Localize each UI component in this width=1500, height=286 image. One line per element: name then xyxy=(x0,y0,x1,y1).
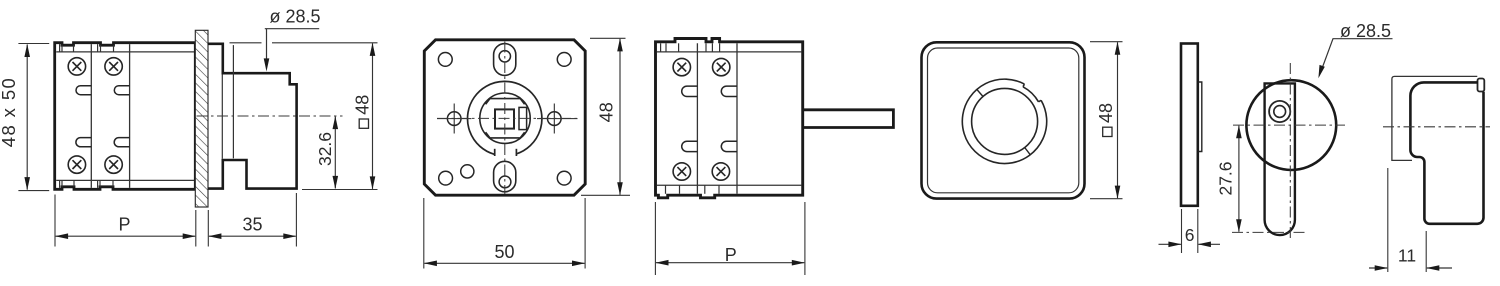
knob handle front xyxy=(1265,83,1295,235)
slot B4 xyxy=(721,141,737,151)
label diameter 28.5 view1 xyxy=(264,7,321,72)
screw A1 xyxy=(68,58,85,75)
slot A3 xyxy=(76,138,91,147)
dimension 6 line outside arrows xyxy=(1159,242,1221,248)
screw B2 xyxy=(713,58,730,75)
plate side ridge xyxy=(1199,82,1202,152)
body section line 2 xyxy=(129,44,131,188)
screw B3 xyxy=(673,163,690,180)
body section line 2 view3 xyxy=(736,43,738,194)
screw B4 xyxy=(712,163,729,180)
escutcheon ring inner circle xyxy=(972,88,1038,154)
svg-text:ø 28.5: ø 28.5 xyxy=(269,7,320,27)
ring tick lower-right xyxy=(1025,148,1031,155)
dimension P view1 line xyxy=(55,233,196,239)
body inner bottom line xyxy=(56,179,194,181)
svg-text:11: 11 xyxy=(1398,246,1416,266)
dimension 35 extensions xyxy=(208,193,296,247)
corner hole TR xyxy=(557,53,571,67)
dimension square48 view4 extensions xyxy=(1090,42,1123,199)
dimension 50 extensions xyxy=(424,198,585,269)
central boss outer ring with bottom notch xyxy=(468,81,542,156)
top oval hole xyxy=(499,51,510,62)
square shaft hole xyxy=(495,109,514,128)
dimension 48x50 line with arrows xyxy=(24,44,30,190)
dimension square48 view1 extension top xyxy=(230,42,378,44)
svg-text:32.6: 32.6 xyxy=(315,132,335,166)
corner hole BR xyxy=(557,171,571,185)
terminal ticks top strip xyxy=(60,44,114,52)
reference line bottom of handle xyxy=(1232,231,1308,233)
svg-text:48: 48 xyxy=(1096,103,1116,123)
dimension 50 line xyxy=(424,261,585,267)
svg-text:P: P xyxy=(725,245,737,265)
dimension 32.6 line xyxy=(333,116,339,189)
dimension square48 view1 line xyxy=(370,43,376,190)
slot A4 xyxy=(114,138,129,147)
svg-text:35: 35 xyxy=(242,215,262,235)
dimension P view1 extensions xyxy=(55,195,196,247)
corner hole BL xyxy=(439,171,453,185)
dimension 48x50 extension bottom xyxy=(18,190,49,192)
escutcheon ring outer with bayonet steps xyxy=(962,79,1046,163)
slot B2 xyxy=(721,86,737,96)
body inner top line xyxy=(56,51,194,53)
dimension 11 extensions xyxy=(1388,168,1426,272)
knob side main thick profile xyxy=(1410,82,1483,223)
right hole with crosshair xyxy=(537,104,578,134)
escutcheon inner edge xyxy=(928,48,1079,193)
dimension 27.6 line xyxy=(1236,125,1242,232)
dimension square48 view4 line xyxy=(1115,42,1121,199)
svg-text:27.6: 27.6 xyxy=(1216,161,1236,195)
left hole with crosshair xyxy=(437,104,472,134)
dimension 6 extensions xyxy=(1182,209,1198,253)
bezel inner edge line A xyxy=(221,74,223,158)
bottom oval slot xyxy=(494,161,516,192)
bezel / front mount outline xyxy=(208,44,297,189)
escutcheon outer outline xyxy=(922,42,1085,198)
slot A1 xyxy=(76,86,91,95)
dimension 48 view2 extensions xyxy=(581,38,630,195)
slot A2 xyxy=(114,86,129,95)
screw A2 xyxy=(105,58,122,75)
center line horizontal view2 xyxy=(437,117,578,119)
corner hole TL xyxy=(438,53,452,67)
knob side top-right tab xyxy=(1478,79,1485,92)
dimension P view3 line xyxy=(655,260,805,266)
screw A4 xyxy=(105,156,122,173)
extra hole near BL xyxy=(461,165,474,178)
collet tab top xyxy=(486,99,525,105)
dimension 35 line xyxy=(208,233,296,239)
bezel flange edge line B xyxy=(232,45,234,158)
svg-text:50: 50 xyxy=(494,242,514,262)
body section line 1 xyxy=(90,44,92,188)
bottom oval hole xyxy=(499,176,511,188)
svg-text:48: 48 xyxy=(597,102,617,122)
knob center line vertical xyxy=(1289,63,1291,240)
knob side center line xyxy=(1383,126,1490,128)
body section line 1 view3 xyxy=(696,43,698,194)
knob front circle xyxy=(1246,80,1336,170)
dimension text square 48 view1 xyxy=(353,95,373,129)
collet tab bottom xyxy=(486,132,525,138)
collet key right xyxy=(519,107,527,129)
knob screw outer xyxy=(1269,101,1290,122)
center line view1 xyxy=(197,115,343,117)
center line vertical view2 xyxy=(504,42,506,195)
slot B3 xyxy=(682,141,698,151)
terminal ticks bottom strip xyxy=(60,180,113,188)
dimension P view3 extensions xyxy=(655,202,805,275)
dimension text square 48 view4 xyxy=(1096,103,1116,137)
screw B1 xyxy=(673,58,690,75)
central boss inner circle xyxy=(480,93,530,143)
knob side outer thin outline xyxy=(1392,76,1477,160)
knob screw inner xyxy=(1274,106,1286,118)
svg-text:48: 48 xyxy=(353,95,373,115)
svg-text:ø 28.5: ø 28.5 xyxy=(1340,21,1391,41)
body inner top line view3 xyxy=(657,51,801,53)
terminal ticks bottom strip view3 xyxy=(666,185,720,194)
body inner bottom line view3 xyxy=(657,184,801,186)
shaft xyxy=(803,110,894,128)
svg-text:P: P xyxy=(118,215,130,235)
ring tick upper-left xyxy=(977,90,983,97)
terminal ticks top strip view3 xyxy=(661,43,720,52)
dimension 48 view2 line xyxy=(617,38,623,195)
top oval slot xyxy=(494,44,516,76)
knob center line horizontal xyxy=(1233,124,1345,126)
switch body outline view3 xyxy=(656,39,803,198)
dimension 48x50 extension top xyxy=(18,43,49,45)
dimension 11 line outside arrows xyxy=(1369,265,1452,271)
dimension square48 view1 extension bottom xyxy=(302,189,378,191)
mounting panel (hatched wall section) xyxy=(195,30,208,207)
switch body outline (side view) xyxy=(55,43,196,190)
slot B1 xyxy=(682,86,698,96)
svg-text:6: 6 xyxy=(1185,225,1195,245)
svg-text:48 x 50: 48 x 50 xyxy=(0,77,19,148)
label diameter 28.5 view5 xyxy=(1318,21,1392,78)
screw A3 xyxy=(68,156,85,173)
escutcheon plate side view outline xyxy=(1181,44,1198,206)
front plate outline (chamfered square) xyxy=(424,40,585,195)
